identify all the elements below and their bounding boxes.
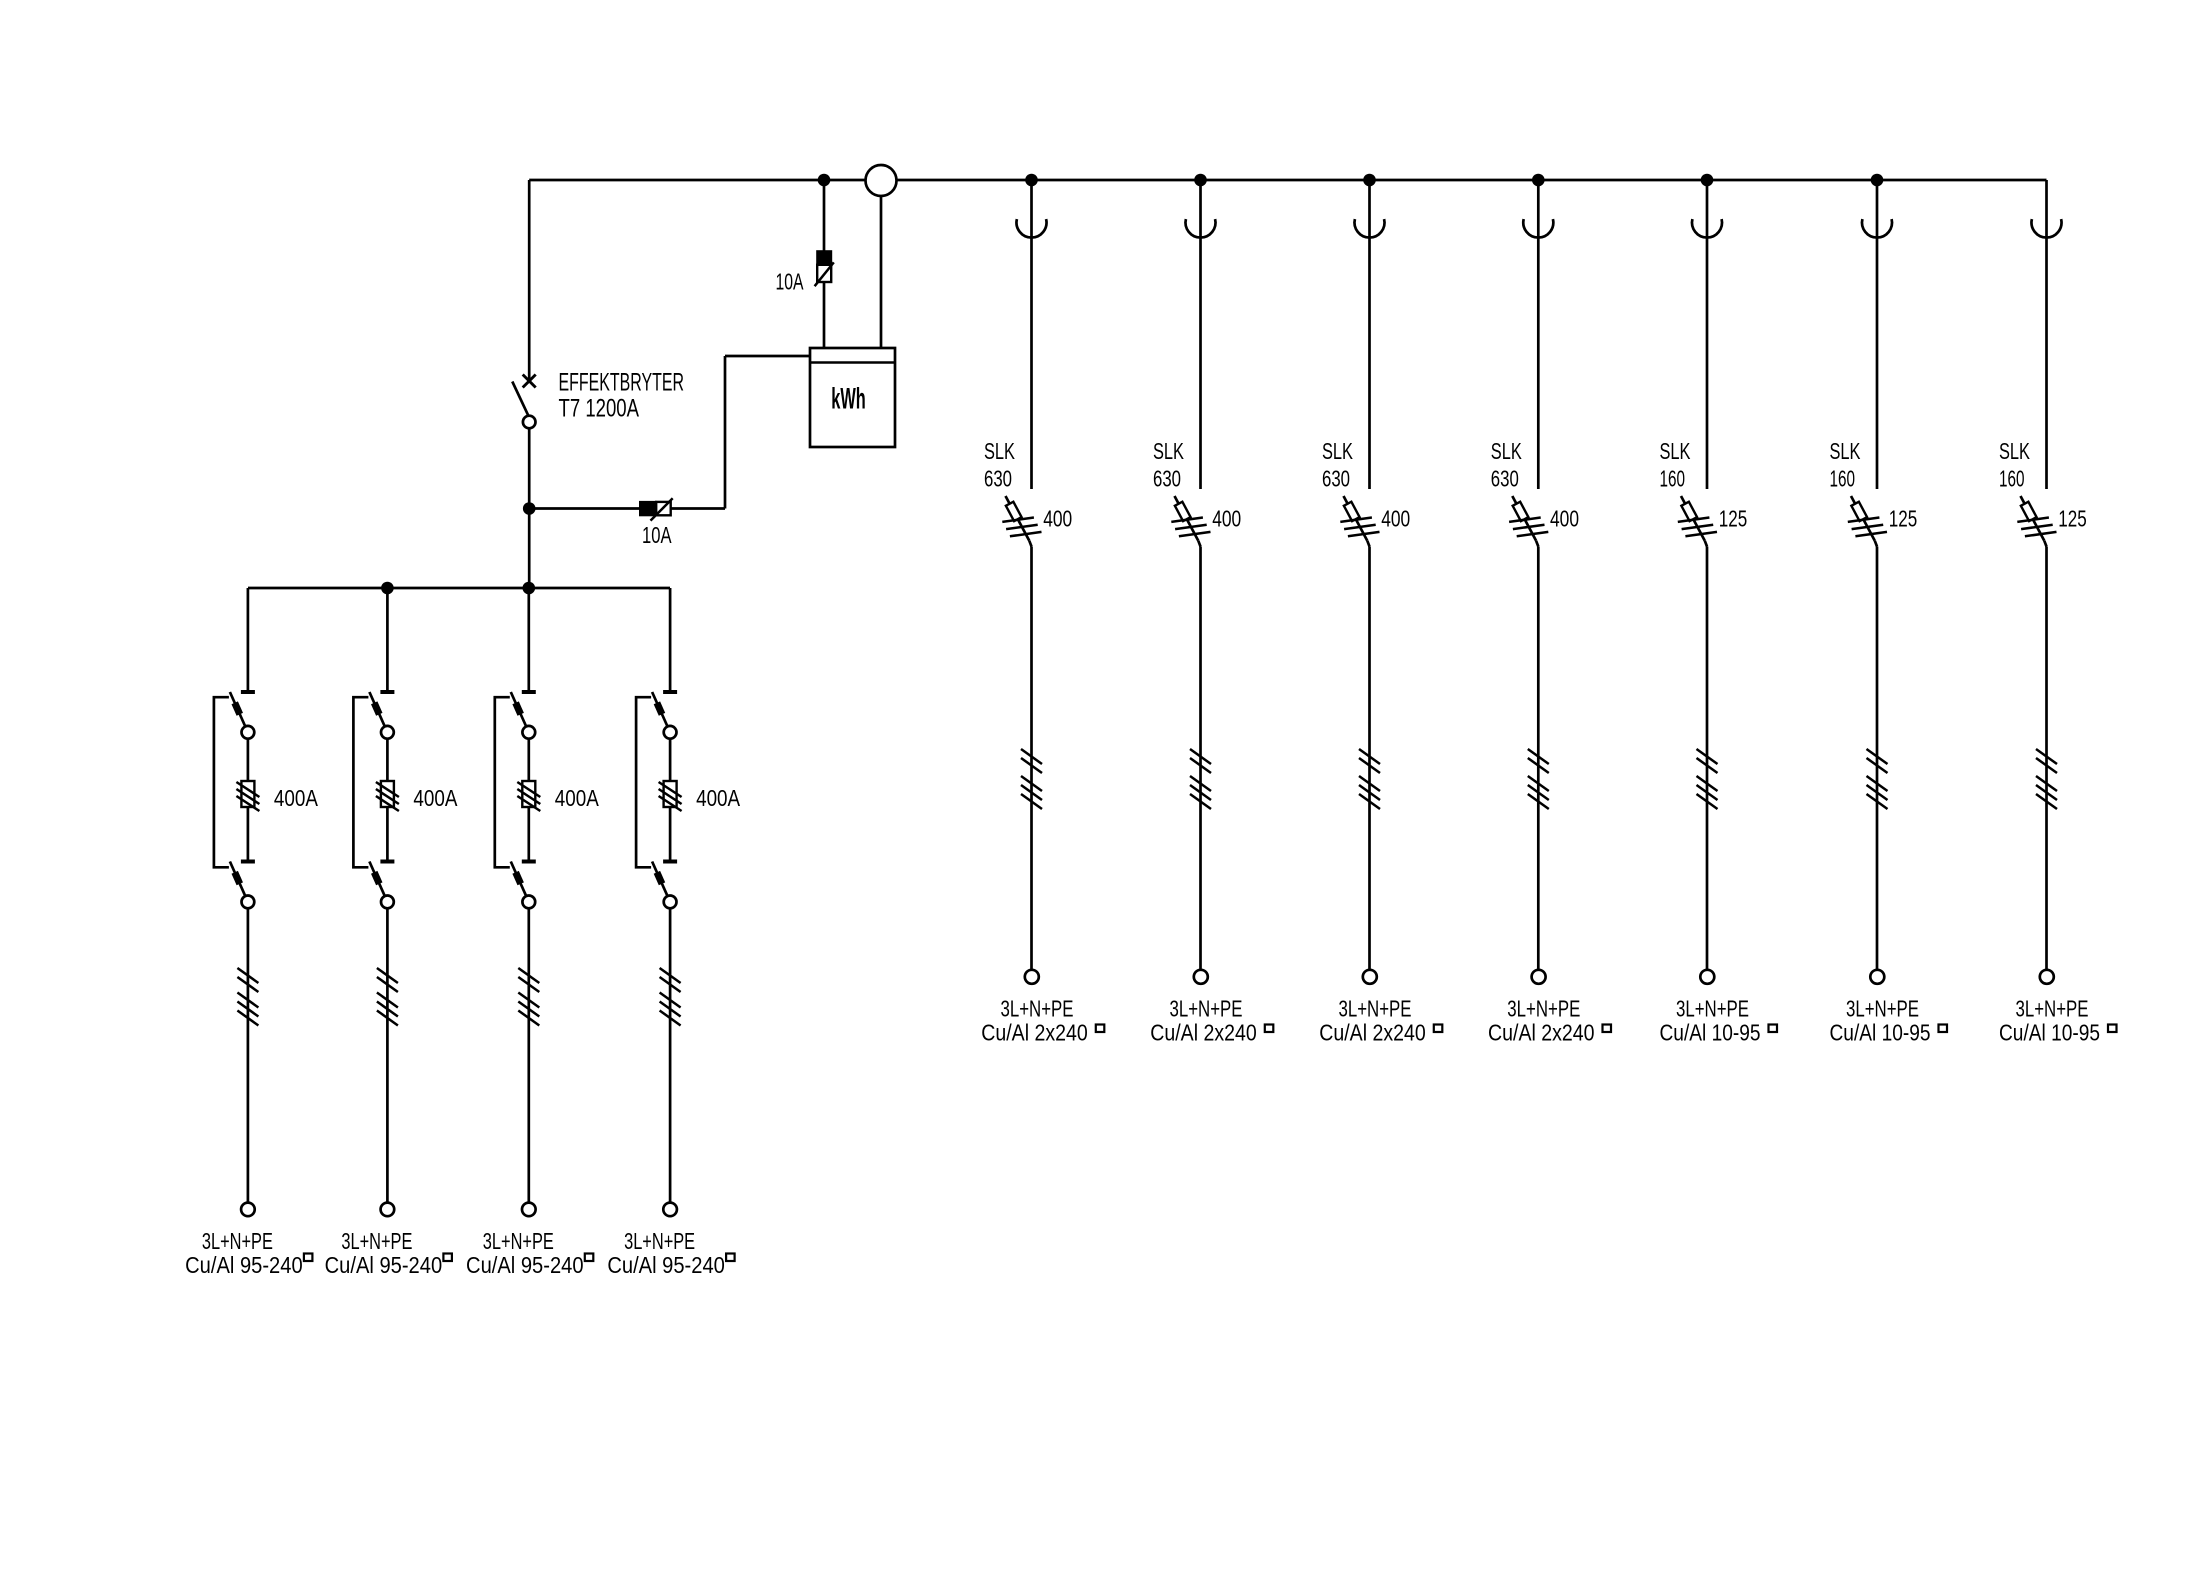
fuse 10A (vertical): open half with diagonal — [817, 265, 831, 282]
switch-fuse Q1 upper blade — [230, 692, 245, 727]
svg-text:Cu/Al 10-95: Cu/Al 10-95 — [1830, 1020, 1931, 1046]
wire: bus tap down to 10A fuse (vertical) — [823, 180, 826, 251]
wire: fuse to lower switch Q2 — [386, 807, 389, 860]
mm2 square symbol (L3) — [585, 1254, 594, 1262]
svg-text:Cu/Al 10-95: Cu/Al 10-95 — [1999, 1020, 2100, 1046]
terminal circle (feeder 4) — [1532, 970, 1546, 984]
fuse body on blade (feeder 3) — [1344, 502, 1360, 521]
phase stroke on blade (feeder 6) — [1848, 518, 1880, 522]
switch-fuse Q3 upper hinge circle — [522, 726, 535, 739]
switch-fuse Q3 lower blade grip (filled) — [516, 872, 521, 884]
svg-text:400: 400 — [1043, 506, 1072, 532]
mm2 square symbol (feeder 1) — [1096, 1025, 1105, 1033]
cable feeder 4 core stroke (triple) — [1528, 776, 1549, 791]
switch-fuse Q2 lower blade grip (filled) — [374, 872, 379, 884]
terminal circle L4 — [663, 1203, 677, 1217]
wire: SLK feeder 6 upper run — [1876, 180, 1879, 489]
switch-fuse Q2 upper fixed contact bar — [380, 690, 394, 694]
svg-text:3L+N+PE: 3L+N+PE — [624, 1228, 695, 1254]
fuse body F2 400A (rectangle) — [381, 781, 394, 807]
svg-text:630: 630 — [1153, 466, 1181, 492]
withdrawable contact arc (feeder 3) — [1355, 219, 1385, 237]
cable L2 core stroke (triple) — [377, 993, 398, 1008]
mm2 square symbol (L4) — [726, 1254, 735, 1262]
svg-text:Cu/Al 95-240: Cu/Al 95-240 — [325, 1252, 443, 1278]
cable feeder 7 core stroke (triple) — [2036, 794, 2057, 809]
switch-fuse Q2 upper blade grip (filled) — [374, 703, 379, 715]
cable L1 core stroke (pair) — [237, 968, 258, 983]
mm2 square symbol (feeder 2) — [1265, 1025, 1274, 1033]
switch-fuse blade (feeder 4) — [1512, 496, 1536, 541]
svg-text:3L+N+PE: 3L+N+PE — [1507, 996, 1580, 1022]
wire: SLK feeder 3 upper run — [1368, 180, 1371, 489]
svg-text:400: 400 — [1212, 506, 1241, 532]
svg-text:Cu/Al 95-240: Cu/Al 95-240 — [185, 1252, 303, 1278]
fuse body on blade (feeder 6) — [1851, 502, 1867, 521]
phase stroke on blade (feeder 2) — [1175, 525, 1207, 529]
cable feeder 6 core stroke (triple) — [1867, 794, 1888, 809]
withdrawable contact arc (feeder 5) — [1692, 219, 1722, 237]
node: feeder L3 tap — [523, 582, 536, 595]
phase stroke on blade (feeder 1) — [1006, 525, 1038, 529]
svg-text:SLK: SLK — [1322, 438, 1353, 464]
fuse F3 phase stroke — [517, 782, 540, 797]
withdrawable frame bracket Q2 — [353, 697, 368, 867]
cable L4 core stroke (triple) — [660, 993, 681, 1008]
wire: CT to kWh box top — [880, 196, 883, 348]
cable feeder 4 core stroke (triple) — [1528, 785, 1549, 800]
wire: SLK feeder 5 upper run — [1706, 180, 1709, 489]
cable feeder 6 core stroke (pair) — [1867, 749, 1888, 764]
fuse 10A (horizontal): open half with diagonal — [656, 502, 671, 515]
svg-text:400A: 400A — [274, 785, 318, 811]
blade bend to line (feeder 7) — [2044, 541, 2046, 547]
svg-text:3L+N+PE: 3L+N+PE — [2016, 996, 2089, 1022]
cable feeder 5 core stroke (triple) — [1697, 776, 1718, 791]
blade bend to line (feeder 4) — [1536, 541, 1538, 547]
breaker contact X mark — [523, 375, 536, 388]
cable feeder 6 core stroke (pair) — [1867, 758, 1888, 773]
fuse F4 phase stroke — [659, 789, 682, 804]
wire: junction to 10A fuse (horizontal) — [529, 507, 640, 510]
svg-text:SLK: SLK — [1491, 438, 1522, 464]
phase stroke on blade (feeder 4) — [1517, 532, 1549, 536]
wire: SLK feeder 4 cable run — [1537, 547, 1540, 970]
fuse body on blade (feeder 2) — [1175, 502, 1191, 521]
cable feeder 6 core stroke (triple) — [1867, 785, 1888, 800]
fuse F4 phase stroke — [659, 796, 682, 811]
switch-fuse Q1 lower fixed contact bar — [241, 860, 255, 864]
wire: Q1 hinge to fuse — [247, 739, 250, 781]
wire: fuse to lower switch Q4 — [669, 807, 672, 860]
svg-text:400: 400 — [1550, 506, 1579, 532]
cable feeder 7 core stroke (triple) — [2036, 785, 2057, 800]
svg-text:3L+N+PE: 3L+N+PE — [1170, 996, 1243, 1022]
fuse F2 phase stroke — [376, 796, 399, 811]
wire: fuse to riser — [671, 507, 725, 510]
svg-text:SLK: SLK — [1660, 438, 1691, 464]
withdrawable frame bracket Q3 — [495, 697, 510, 867]
svg-text:160: 160 — [1999, 466, 2025, 492]
blade bend to line (feeder 5) — [1705, 541, 1707, 547]
switch-fuse Q2 lower hinge circle — [381, 896, 394, 909]
mm2 square symbol (feeder 4) — [1603, 1025, 1612, 1033]
withdrawable frame bracket Q1 — [214, 697, 229, 867]
switch-fuse blade (feeder 2) — [1175, 496, 1199, 541]
cable L4 core stroke (pair) — [660, 977, 681, 992]
fuse body on blade (feeder 4) — [1513, 502, 1529, 521]
phase stroke on blade (feeder 3) — [1344, 525, 1376, 529]
svg-text:T7 1200A: T7 1200A — [559, 395, 640, 423]
switch-fuse Q4 lower blade grip (filled) — [657, 872, 662, 884]
wire: SLK feeder 3 cable run — [1368, 547, 1371, 970]
fuse body F1 400A (rectangle) — [241, 781, 254, 807]
mm2 square symbol (L1) — [304, 1254, 313, 1262]
wire: riser up — [724, 356, 727, 509]
switch-fuse Q1 lower blade — [230, 862, 245, 897]
phase stroke on blade (feeder 7) — [2017, 518, 2049, 522]
withdrawable frame bracket Q4 — [636, 697, 651, 867]
cable feeder 2 core stroke (pair) — [1190, 749, 1211, 764]
phase stroke on blade (feeder 7) — [2025, 532, 2057, 536]
wire: fuse to lower switch Q1 — [247, 807, 250, 860]
cable feeder 1 core stroke (triple) — [1021, 785, 1042, 800]
fuse body on blade (feeder 7) — [2021, 502, 2037, 521]
mm2 square symbol (feeder 7) — [2108, 1025, 2117, 1033]
svg-text:125: 125 — [1719, 506, 1748, 532]
blade bend to line (feeder 2) — [1198, 541, 1200, 547]
cable L2 core stroke (pair) — [377, 977, 398, 992]
wire: riser to kWh box left side — [725, 355, 810, 358]
svg-text:3L+N+PE: 3L+N+PE — [1001, 996, 1074, 1022]
node: SLK feeder 3 tap — [1363, 174, 1376, 187]
svg-text:400A: 400A — [413, 785, 457, 811]
cable L2 core stroke (triple) — [377, 1002, 398, 1017]
terminal circle (feeder 5) — [1700, 970, 1714, 984]
svg-text:Cu/Al 95-240: Cu/Al 95-240 — [607, 1252, 725, 1278]
switch-fuse Q3 upper blade — [511, 692, 526, 727]
cable L3 core stroke (pair) — [518, 968, 539, 983]
breaker blade (EFFEKTBRYTER T7 1200A) — [512, 382, 528, 416]
cable feeder 5 core stroke (triple) — [1697, 794, 1718, 809]
wire: SLK feeder 1 cable run — [1030, 547, 1033, 970]
node: SLK feeder 5 tap — [1701, 174, 1714, 187]
fuse F1 phase stroke — [236, 782, 259, 797]
terminal circle (feeder 2) — [1194, 970, 1208, 984]
wire: Q4 hinge to fuse — [669, 739, 672, 781]
cable feeder 3 core stroke (triple) — [1359, 785, 1380, 800]
wire: SLK feeder 1 upper run — [1030, 180, 1033, 489]
switch-fuse blade (feeder 3) — [1344, 496, 1368, 541]
switch-fuse Q1 lower blade grip (filled) — [235, 872, 240, 884]
wire: lower distribution busbar — [248, 587, 670, 590]
phase stroke on blade (feeder 6) — [1852, 525, 1884, 529]
cable feeder 1 core stroke (pair) — [1021, 758, 1042, 773]
cable L3 core stroke (pair) — [518, 977, 539, 992]
wire: feeder L2 drop from bus — [386, 588, 389, 691]
node: SLK feeder 2 tap — [1194, 174, 1207, 187]
wire: breaker to lower bus — [528, 428, 531, 588]
mm2 square symbol (L2) — [443, 1254, 452, 1262]
cable L1 core stroke (pair) — [237, 977, 258, 992]
switch-fuse blade (feeder 6) — [1851, 496, 1875, 541]
cable L3 core stroke (triple) — [518, 1002, 539, 1017]
switch-fuse blade (feeder 7) — [2021, 496, 2045, 541]
phase stroke on blade (feeder 3) — [1340, 518, 1372, 522]
node: feeder L2 tap — [381, 582, 394, 595]
switch-fuse Q2 lower fixed contact bar — [380, 860, 394, 864]
blade bend to line (feeder 3) — [1367, 541, 1369, 547]
switch-fuse Q2 lower blade — [369, 862, 384, 897]
current transformer circle on busbar — [866, 165, 897, 196]
wire: fuse to lower switch Q3 — [527, 807, 530, 860]
cable feeder 7 core stroke (pair) — [2036, 749, 2057, 764]
wire: SLK feeder 7 cable run — [2045, 547, 2048, 970]
svg-text:400: 400 — [1381, 506, 1410, 532]
cable feeder 3 core stroke (triple) — [1359, 776, 1380, 791]
cable L2 core stroke (triple) — [377, 1011, 398, 1026]
svg-text:SLK: SLK — [984, 438, 1015, 464]
svg-text:400A: 400A — [555, 785, 599, 811]
cable feeder 1 core stroke (triple) — [1021, 776, 1042, 791]
svg-text:125: 125 — [1889, 506, 1918, 532]
cable L4 core stroke (triple) — [660, 1011, 681, 1026]
fuse 10A (horizontal): filled half — [640, 502, 656, 515]
withdrawable contact arc (feeder 2) — [1186, 219, 1216, 237]
cable feeder 5 core stroke (triple) — [1697, 785, 1718, 800]
cable feeder 3 core stroke (pair) — [1359, 758, 1380, 773]
cable feeder 3 core stroke (pair) — [1359, 749, 1380, 764]
cable feeder 7 core stroke (pair) — [2036, 758, 2057, 773]
fuse 10A (vertical): filled half — [817, 251, 831, 265]
cable feeder 2 core stroke (pair) — [1190, 758, 1211, 773]
terminal circle L2 — [381, 1203, 395, 1217]
fuse body F3 400A (rectangle) — [522, 781, 535, 807]
svg-text:3L+N+PE: 3L+N+PE — [483, 1228, 554, 1254]
cable feeder 2 core stroke (triple) — [1190, 785, 1211, 800]
cable L3 core stroke (triple) — [518, 993, 539, 1008]
wire: main top busbar — [529, 179, 2046, 182]
terminal circle (feeder 6) — [1870, 970, 1884, 984]
svg-text:10A: 10A — [776, 269, 804, 295]
withdrawable contact arc (feeder 7) — [2032, 219, 2062, 237]
switch-fuse Q3 upper fixed contact bar — [522, 690, 536, 694]
svg-text:EFFEKTBRYTER: EFFEKTBRYTER — [559, 369, 685, 397]
switch-fuse Q1 lower hinge circle — [242, 896, 255, 909]
switch-fuse blade (feeder 1) — [1006, 496, 1030, 541]
fuse body F4 400A (rectangle) — [664, 781, 677, 807]
fuse F3 phase stroke — [517, 796, 540, 811]
cable feeder 1 core stroke (triple) — [1021, 794, 1042, 809]
fuse body on blade (feeder 5) — [1681, 502, 1697, 521]
svg-text:3L+N+PE: 3L+N+PE — [1676, 996, 1749, 1022]
switch-fuse Q1 upper hinge circle — [242, 726, 255, 739]
node: voltage tap on busbar — [818, 174, 831, 187]
switch-fuse Q4 upper blade — [652, 692, 667, 727]
phase stroke on blade (feeder 3) — [1348, 532, 1380, 536]
switch-fuse Q4 upper hinge circle — [664, 726, 677, 739]
svg-text:160: 160 — [1830, 466, 1856, 492]
wire: Q3 hinge to fuse — [527, 739, 530, 781]
breaker hinge circle — [523, 416, 536, 429]
switch-fuse Q4 lower hinge circle — [664, 896, 677, 909]
switch-fuse Q1 upper blade grip (filled) — [235, 703, 240, 715]
svg-text:400A: 400A — [696, 785, 740, 811]
svg-text:3L+N+PE: 3L+N+PE — [202, 1228, 273, 1254]
withdrawable contact arc (feeder 6) — [1862, 219, 1892, 237]
phase stroke on blade (feeder 5) — [1678, 518, 1710, 522]
svg-text:630: 630 — [1322, 466, 1350, 492]
svg-text:Cu/Al 2x240: Cu/Al 2x240 — [1488, 1020, 1595, 1046]
svg-text:SLK: SLK — [1999, 438, 2030, 464]
switch-fuse Q1 upper fixed contact bar — [241, 690, 255, 694]
svg-text:10A: 10A — [642, 522, 672, 548]
switch-fuse Q4 lower blade — [652, 862, 667, 897]
svg-text:630: 630 — [984, 466, 1012, 492]
switch-fuse Q4 lower fixed contact bar — [663, 860, 677, 864]
fuse F2 phase stroke — [376, 789, 399, 804]
wire: feeder L1 drop from bus — [247, 588, 250, 691]
wire: feeder L4 cable run — [669, 908, 672, 1202]
cable feeder 5 core stroke (pair) — [1697, 758, 1718, 773]
svg-text:Cu/Al 2x240: Cu/Al 2x240 — [981, 1020, 1088, 1046]
wire: feeder L3 drop from bus — [527, 588, 530, 691]
cable L1 core stroke (triple) — [237, 1002, 258, 1017]
node: SLK feeder 1 tap — [1025, 174, 1038, 187]
svg-text:Cu/Al 2x240: Cu/Al 2x240 — [1319, 1020, 1426, 1046]
kWh meter box — [810, 348, 895, 447]
cable feeder 4 core stroke (pair) — [1528, 758, 1549, 773]
cable feeder 4 core stroke (triple) — [1528, 794, 1549, 809]
switch-fuse Q2 upper blade — [369, 692, 384, 727]
wire: fuse to kWh box top — [823, 282, 826, 348]
wire: feeder L3 cable run — [527, 908, 530, 1202]
svg-text:160: 160 — [1660, 466, 1686, 492]
fuse F1 phase stroke — [236, 789, 259, 804]
svg-text:3L+N+PE: 3L+N+PE — [341, 1228, 412, 1254]
withdrawable contact arc (feeder 1) — [1017, 219, 1047, 237]
cable L4 core stroke (triple) — [660, 1002, 681, 1017]
cable feeder 7 core stroke (triple) — [2036, 776, 2057, 791]
terminal circle (feeder 1) — [1025, 970, 1039, 984]
svg-text:SLK: SLK — [1153, 438, 1184, 464]
switch-fuse Q2 upper hinge circle — [381, 726, 394, 739]
cable feeder 5 core stroke (pair) — [1697, 749, 1718, 764]
wire: SLK feeder 2 cable run — [1199, 547, 1202, 970]
wire: SLK feeder 2 upper run — [1199, 180, 1202, 489]
svg-text:Cu/Al 2x240: Cu/Al 2x240 — [1150, 1020, 1257, 1046]
blade bend to line (feeder 1) — [1029, 541, 1031, 547]
phase stroke on blade (feeder 4) — [1513, 525, 1545, 529]
cable feeder 4 core stroke (pair) — [1528, 749, 1549, 764]
phase stroke on blade (feeder 1) — [1010, 532, 1042, 536]
wire: feeder L4 drop from bus — [669, 588, 672, 691]
svg-text:SLK: SLK — [1830, 438, 1861, 464]
wire: incomer drop to breaker — [528, 180, 531, 381]
svg-text:Cu/Al 10-95: Cu/Al 10-95 — [1660, 1020, 1761, 1046]
switch-fuse Q4 upper fixed contact bar — [663, 690, 677, 694]
withdrawable contact arc (feeder 4) — [1523, 219, 1553, 237]
wire: SLK feeder 7 upper run — [2045, 180, 2048, 489]
cable feeder 2 core stroke (triple) — [1190, 776, 1211, 791]
phase stroke on blade (feeder 4) — [1509, 518, 1541, 522]
wire: SLK feeder 4 upper run — [1537, 180, 1540, 489]
svg-text:Cu/Al 95-240: Cu/Al 95-240 — [466, 1252, 584, 1278]
fuse F4 phase stroke — [659, 782, 682, 797]
cable L1 core stroke (triple) — [237, 993, 258, 1008]
node: SLK feeder 4 tap — [1532, 174, 1545, 187]
cable L1 core stroke (triple) — [237, 1011, 258, 1026]
mm2 square symbol (feeder 3) — [1434, 1025, 1443, 1033]
phase stroke on blade (feeder 6) — [1855, 532, 1887, 536]
mm2 square symbol (feeder 5) — [1769, 1025, 1778, 1033]
phase stroke on blade (feeder 2) — [1179, 532, 1211, 536]
fuse F3 phase stroke — [517, 789, 540, 804]
mm2 square symbol (feeder 6) — [1939, 1025, 1948, 1033]
wire: feeder L2 cable run — [386, 908, 389, 1202]
cable L2 core stroke (pair) — [377, 968, 398, 983]
cable L3 core stroke (triple) — [518, 1011, 539, 1026]
node: kWh tap junction — [523, 502, 536, 515]
wire: Q2 hinge to fuse — [386, 739, 389, 781]
svg-text:630: 630 — [1491, 466, 1519, 492]
cable feeder 1 core stroke (pair) — [1021, 749, 1042, 764]
terminal circle (feeder 3) — [1363, 970, 1377, 984]
svg-text:kWh: kWh — [831, 383, 866, 416]
terminal circle L3 — [522, 1203, 536, 1217]
cable feeder 2 core stroke (triple) — [1190, 794, 1211, 809]
switch-fuse Q3 lower blade — [511, 862, 526, 897]
wire: SLK feeder 5 cable run — [1706, 547, 1709, 970]
switch-fuse Q3 lower fixed contact bar — [522, 860, 536, 864]
wire: feeder L1 cable run — [247, 908, 250, 1202]
phase stroke on blade (feeder 5) — [1685, 532, 1717, 536]
phase stroke on blade (feeder 7) — [2021, 525, 2053, 529]
cable feeder 3 core stroke (triple) — [1359, 794, 1380, 809]
node: SLK feeder 6 tap — [1871, 174, 1884, 187]
fuse body on blade (feeder 1) — [1006, 502, 1022, 521]
svg-text:3L+N+PE: 3L+N+PE — [1339, 996, 1412, 1022]
cable feeder 6 core stroke (triple) — [1867, 776, 1888, 791]
fuse F2 phase stroke — [376, 782, 399, 797]
cable L4 core stroke (pair) — [660, 968, 681, 983]
fuse F1 phase stroke — [236, 796, 259, 811]
phase stroke on blade (feeder 5) — [1682, 525, 1714, 529]
svg-text:125: 125 — [2058, 506, 2087, 532]
wire: SLK feeder 6 cable run — [1876, 547, 1879, 970]
switch-fuse Q4 upper blade grip (filled) — [657, 703, 662, 715]
terminal circle (feeder 7) — [2040, 970, 2054, 984]
blade bend to line (feeder 6) — [1875, 541, 1877, 547]
svg-text:3L+N+PE: 3L+N+PE — [1846, 996, 1919, 1022]
phase stroke on blade (feeder 2) — [1171, 518, 1203, 522]
switch-fuse Q3 lower hinge circle — [522, 896, 535, 909]
terminal circle L1 — [241, 1203, 255, 1217]
switch-fuse blade (feeder 5) — [1681, 496, 1705, 541]
phase stroke on blade (feeder 1) — [1002, 518, 1034, 522]
switch-fuse Q3 upper blade grip (filled) — [516, 703, 521, 715]
